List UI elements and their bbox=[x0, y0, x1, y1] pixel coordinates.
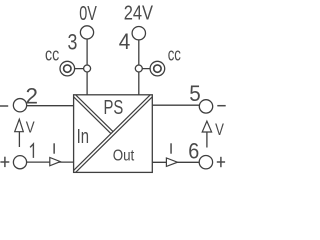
junction node on wire 3 bbox=[84, 65, 91, 72]
minus sign at terminal 5 bbox=[217, 105, 225, 107]
terminal 6 circle bbox=[199, 156, 212, 169]
wire stub left cc connector to junction bbox=[67, 68, 87, 70]
current arrow on input wire bbox=[50, 158, 61, 166]
terminal 2 circle bbox=[13, 99, 26, 112]
half diagonal (double line) top-left to centre bbox=[74, 95, 113, 134]
svg-text:6: 6 bbox=[188, 138, 199, 163]
wire from terminal 2 to block left bbox=[27, 105, 74, 107]
terminal 5 circle bbox=[199, 100, 212, 113]
label I on output wire bbox=[170, 143, 172, 153]
wire from block right to terminal 6 bbox=[152, 161, 199, 163]
svg-text:Out: Out bbox=[113, 148, 135, 165]
svg-text:0V: 0V bbox=[79, 2, 97, 25]
current arrow on output wire bbox=[166, 158, 177, 166]
terminal 3 circle bbox=[80, 26, 93, 39]
wire from block right to terminal 5 bbox=[152, 104, 199, 106]
svg-text:5: 5 bbox=[189, 81, 201, 106]
svg-text:2: 2 bbox=[26, 84, 39, 109]
wire from terminal 3 down to PS block bbox=[86, 39, 88, 95]
arrow shaft of left delta-V bbox=[18, 132, 20, 147]
junction node on wire 4 bbox=[135, 65, 142, 72]
svg-text:cc: cc bbox=[168, 44, 181, 65]
svg-text:V: V bbox=[26, 120, 35, 137]
plus sign at terminal 1 bbox=[0, 157, 9, 167]
left cc coax connector inner circle bbox=[64, 65, 71, 72]
minus sign at terminal 2 bbox=[0, 105, 8, 107]
right cc coax connector inner circle bbox=[154, 65, 161, 72]
svg-text:V: V bbox=[215, 121, 224, 139]
left cc coax connector outer circle bbox=[60, 61, 75, 76]
wire from terminal 4 down to PS block bbox=[138, 40, 140, 95]
svg-text:In: In bbox=[77, 125, 89, 148]
terminal 4 circle bbox=[132, 27, 145, 40]
wire from terminal 1 to block left bbox=[27, 161, 74, 163]
isolation diagonal (double line) bottom-left to top-right bbox=[74, 95, 153, 173]
svg-text:PS: PS bbox=[104, 97, 124, 119]
svg-text:cc: cc bbox=[45, 44, 59, 65]
svg-text:3: 3 bbox=[68, 30, 78, 55]
wire stub junction to right cc connector bbox=[139, 68, 158, 70]
right delta-V arrow head bbox=[202, 121, 211, 132]
PS block outline bbox=[74, 95, 153, 173]
arrow shaft of right delta-V bbox=[206, 132, 208, 148]
plus sign at terminal 6 bbox=[217, 157, 225, 167]
right cc coax connector outer circle bbox=[150, 61, 165, 76]
svg-text:4: 4 bbox=[119, 29, 131, 54]
pin number 1 bbox=[30, 144, 33, 158]
terminal 1 circle bbox=[13, 156, 26, 169]
svg-text:24V: 24V bbox=[124, 1, 154, 24]
left delta-V arrow head bbox=[15, 119, 24, 132]
label I on input wire bbox=[53, 143, 55, 153]
